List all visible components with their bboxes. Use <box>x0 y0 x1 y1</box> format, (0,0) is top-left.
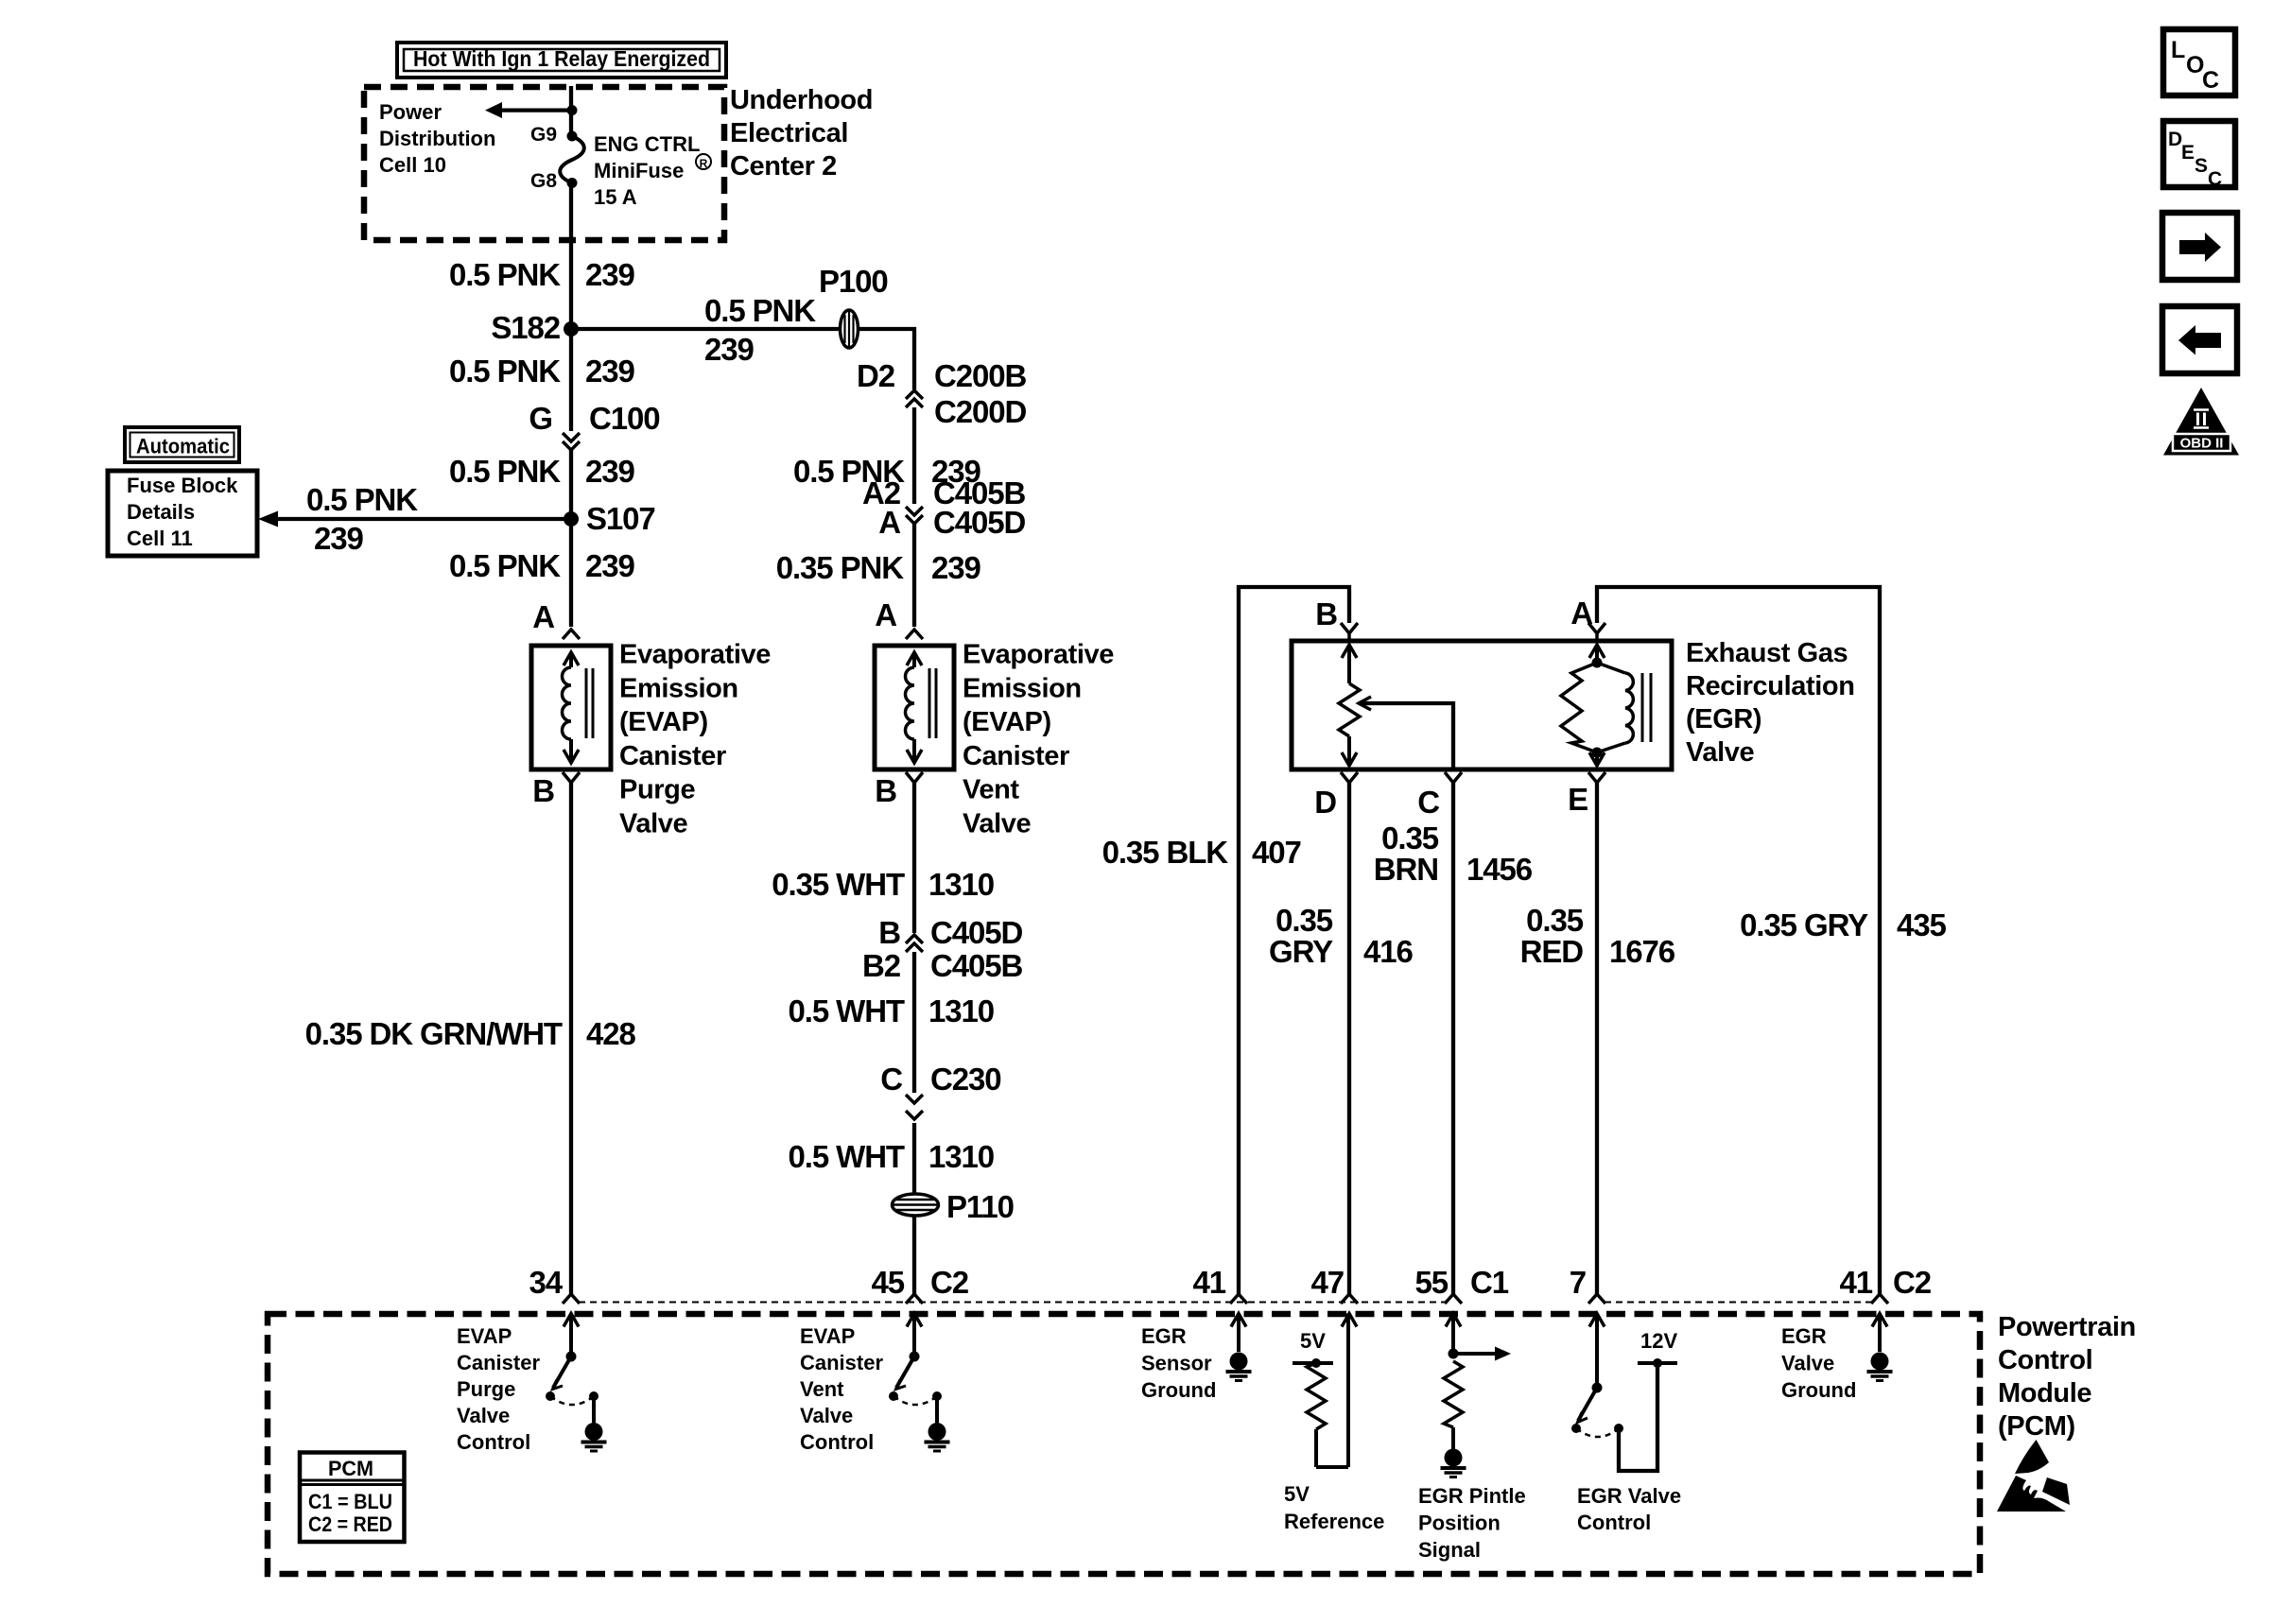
svg-text:47: 47 <box>1310 1265 1344 1300</box>
svg-text:PCM: PCM <box>328 1457 373 1480</box>
EGR valve ground pin 41 right <box>1878 1314 1882 1353</box>
terminal G9 <box>567 131 578 142</box>
driver switch EGR valve control <box>1571 1314 1677 1472</box>
svg-text:G9: G9 <box>530 124 557 146</box>
terminal pin E EGR <box>1588 772 1605 783</box>
svg-text:E: E <box>2181 142 2195 164</box>
pass-through grommet P110 <box>893 1194 939 1216</box>
svg-text:D: D <box>1314 785 1336 820</box>
svg-text:0.35: 0.35 <box>1275 903 1333 938</box>
registered trademark symbol <box>696 154 711 169</box>
wire EGR E to PCM 7, 0.35 RED 1676 <box>1595 783 1599 1294</box>
svg-text:L: L <box>2171 37 2185 63</box>
svg-text:5V: 5V <box>1300 1329 1326 1353</box>
svg-text:BRN: BRN <box>1374 852 1438 887</box>
svg-text:0.35 BLK: 0.35 BLK <box>1102 835 1229 870</box>
junction at power distribution tap <box>567 105 578 115</box>
fuse ENG CTRL MiniFuse 15 A <box>560 136 584 183</box>
svg-text:1676: 1676 <box>1609 934 1675 969</box>
OBD II icon <box>2163 388 2239 456</box>
terminal PCM pin 7 <box>1588 1294 1605 1304</box>
svg-text:B: B <box>878 915 900 950</box>
terminal PCM pin 41 <box>1230 1294 1247 1304</box>
svg-text:C405B: C405B <box>930 948 1022 983</box>
svg-text:416: 416 <box>1363 934 1414 969</box>
svg-text:7: 7 <box>1570 1265 1586 1300</box>
svg-text:C2: C2 <box>930 1265 969 1300</box>
Underhood Electrical Center 2 dashed box <box>364 87 724 240</box>
svg-text:C200D: C200D <box>934 394 1026 429</box>
svg-text:0.5 PNK: 0.5 PNK <box>449 354 561 389</box>
connector C230 chevrons <box>906 1095 923 1103</box>
svg-text:C2: C2 <box>1893 1265 1932 1300</box>
svg-text:0.35 WHT: 0.35 WHT <box>772 867 905 902</box>
svg-text:239: 239 <box>585 354 635 389</box>
svg-text:0.5 WHT: 0.5 WHT <box>789 993 905 1028</box>
svg-text:C1: C1 <box>1470 1265 1509 1300</box>
svg-text:45: 45 <box>871 1265 904 1300</box>
svg-text:239: 239 <box>585 257 635 292</box>
svg-text:0.5 WHT: 0.5 WHT <box>789 1139 905 1174</box>
svg-text:G8: G8 <box>530 170 557 192</box>
svg-text:239: 239 <box>585 548 635 583</box>
svg-text:C2 = RED: C2 = RED <box>308 1512 392 1536</box>
svg-text:1310: 1310 <box>928 1139 994 1174</box>
forward arrow icon <box>2162 213 2237 280</box>
terminal PCM pin 55 <box>1445 1294 1462 1304</box>
svg-text:S107: S107 <box>586 501 655 536</box>
EGR valve box <box>1292 641 1672 769</box>
svg-text:GRY: GRY <box>1269 934 1333 969</box>
terminal pin C EGR <box>1445 772 1462 783</box>
connector C100 chevrons <box>563 433 580 441</box>
svg-text:C: C <box>2202 67 2219 94</box>
svg-text:41: 41 <box>1839 1265 1872 1300</box>
svg-text:0.35: 0.35 <box>1526 903 1584 938</box>
svg-text:407: 407 <box>1252 835 1301 870</box>
ESD sensitive symbol <box>1997 1440 2070 1512</box>
svg-text:1310: 1310 <box>928 993 994 1028</box>
svg-text:S: S <box>2195 155 2208 177</box>
svg-text:A: A <box>875 597 896 632</box>
svg-text:P110: P110 <box>946 1189 1014 1224</box>
DESC icon <box>2163 121 2235 190</box>
terminal pin D EGR <box>1341 772 1358 783</box>
pass-through grommet P100 <box>841 310 859 348</box>
svg-text:0.35 PNK: 0.35 PNK <box>776 550 905 585</box>
EGR pintle position signal input <box>1444 1314 1511 1450</box>
terminal G8 <box>567 178 578 188</box>
svg-text:C: C <box>880 1062 902 1097</box>
PCM connector thin dashed line <box>579 1302 1448 1304</box>
svg-text:G: G <box>529 401 552 436</box>
wire vent valve to C405D, 0.35 WHT 1310 <box>912 783 916 933</box>
arrowhead to Power Distribution <box>485 102 502 118</box>
svg-text:12V: 12V <box>1640 1329 1677 1353</box>
svg-text:Automatic: Automatic <box>136 435 230 458</box>
svg-text:239: 239 <box>314 521 364 556</box>
svg-text:C1 = BLU: C1 = BLU <box>308 1490 392 1513</box>
svg-text:C405D: C405D <box>930 915 1022 950</box>
svg-text:55: 55 <box>1414 1265 1448 1300</box>
svg-text:239: 239 <box>931 550 981 585</box>
svg-text:C: C <box>2208 168 2222 190</box>
svg-text:1456: 1456 <box>1466 852 1533 887</box>
PCM input arrow pin 41R <box>1872 1314 1887 1327</box>
header box: Hot With Ign 1 Relay Energized <box>397 43 726 78</box>
connector C405D/C405B chevrons lower <box>906 935 923 943</box>
wire C230 to P110, 0.5 WHT 1310 <box>912 1123 916 1194</box>
svg-text:435: 435 <box>1897 907 1947 942</box>
svg-text:0.5 PNK: 0.5 PNK <box>449 257 561 292</box>
wire EGR D to PCM 47, 0.35 GRY 416 <box>1347 783 1351 1294</box>
wire purge valve to PCM pin 34, 0.35 DK GRN/WHT 428 <box>569 783 573 1294</box>
EGR harness top left wire <box>1239 587 1349 1294</box>
EGR solenoid winding <box>1561 645 1651 766</box>
terminal PCM pin 41 right <box>1871 1294 1888 1304</box>
svg-text:P100: P100 <box>819 264 888 299</box>
svg-text:C405D: C405D <box>933 505 1025 540</box>
svg-text:C230: C230 <box>930 1062 1001 1097</box>
svg-text:C: C <box>1417 785 1439 820</box>
PCM input arrow pin 55 <box>1446 1314 1461 1327</box>
PCM legend box <box>300 1453 405 1543</box>
back arrow icon <box>2162 306 2237 373</box>
PCM input arrow pin 34 <box>564 1314 579 1327</box>
svg-text:41: 41 <box>1192 1265 1225 1300</box>
svg-text:B: B <box>1315 596 1337 631</box>
wire C200D to C405B, 0.5 PNK 239 <box>912 407 916 504</box>
wire from ignition feed down to G9 <box>569 86 573 136</box>
Powertrain Control Module dashed box <box>268 1314 1980 1574</box>
EGR harness top right wire <box>1597 587 1880 1294</box>
connector C405B/C405D chevrons <box>906 507 923 515</box>
solenoid EVAP Canister Vent Valve <box>875 646 954 769</box>
terminal pin A vent valve <box>906 630 923 639</box>
Automatic tag box <box>125 427 239 462</box>
terminal PCM pin 34 <box>563 1294 580 1304</box>
wire P110 to PCM pin 45 <box>912 1216 916 1294</box>
wire S182 down, 0.5 PNK 239 <box>569 329 573 431</box>
PCM input arrow pin 47 <box>1342 1314 1357 1327</box>
wire C405B to C230, 0.5 WHT 1310 <box>912 952 916 1093</box>
svg-text:34: 34 <box>529 1265 563 1300</box>
svg-text:428: 428 <box>586 1016 636 1051</box>
svg-text:1310: 1310 <box>928 867 994 902</box>
svg-text:0.35 GRY: 0.35 GRY <box>1740 907 1868 942</box>
wire S107 to EVAP purge valve pin A, 0.5 PNK 239 <box>569 519 573 627</box>
arrowhead to Fuse Block <box>258 511 278 527</box>
wire S107 to Fuse Block, 0.5 PNK 239 <box>276 517 571 521</box>
svg-text:D: D <box>2168 129 2182 150</box>
svg-text:B: B <box>532 773 554 808</box>
EGR sensor ground pin 41 <box>1237 1314 1241 1353</box>
wire S182 to P100, 0.5 PNK 239 <box>571 327 841 331</box>
5V reference pull-up <box>1293 1314 1348 1468</box>
terminal PCM pin 47 <box>1341 1294 1358 1304</box>
wire C100 to S107, 0.5 PNK 239 <box>569 450 573 519</box>
svg-text:0.35 DK GRN/WHT: 0.35 DK GRN/WHT <box>305 1016 563 1051</box>
svg-text:0.5 PNK: 0.5 PNK <box>449 454 561 489</box>
PCM input arrow pin 41 <box>1231 1314 1246 1327</box>
svg-text:D2: D2 <box>857 358 895 393</box>
wire C405D to EVAP vent valve pin A, 0.35 PNK 239 <box>912 524 916 627</box>
svg-text:0.5 PNK: 0.5 PNK <box>449 548 561 583</box>
driver switch EVAP canister purge valve control <box>546 1314 599 1424</box>
svg-text:A: A <box>532 599 554 634</box>
svg-text:OBD II: OBD II <box>2180 436 2224 452</box>
wire P100 to C200 connector <box>858 329 914 389</box>
PCM input arrow pin 45 <box>907 1314 922 1327</box>
svg-text:Hot With Ign 1 Relay Energized: Hot With Ign 1 Relay Energized <box>413 46 710 71</box>
terminal pin B EGR <box>1341 623 1358 633</box>
svg-text:239: 239 <box>585 454 635 489</box>
potentiometer wiper arrow <box>1359 697 1453 771</box>
svg-text:C200B: C200B <box>934 358 1026 393</box>
terminal pin A EGR <box>1588 623 1605 633</box>
svg-text:S182: S182 <box>491 310 560 345</box>
wire to Power Distribution arrow <box>501 108 572 112</box>
driver switch EVAP canister vent valve control <box>889 1314 942 1424</box>
svg-text:A: A <box>878 505 900 540</box>
solenoid EVAP Canister Purge Valve <box>531 646 611 769</box>
svg-text:239: 239 <box>704 332 755 367</box>
svg-text:C100: C100 <box>589 401 660 436</box>
svg-text:0.5 PNK: 0.5 PNK <box>704 293 816 328</box>
terminal PCM pin 45 <box>906 1294 923 1304</box>
svg-text:RED: RED <box>1520 934 1584 969</box>
connector C200B/C200D chevrons <box>906 390 923 399</box>
svg-text:B: B <box>875 773 896 808</box>
svg-text:B2: B2 <box>862 948 901 983</box>
wire G8 to S182, 0.5 PNK 239 <box>569 183 573 330</box>
potentiometer inside EGR valve <box>1339 645 1360 766</box>
terminal pin A purge valve <box>563 630 580 639</box>
wire EGR C to PCM 55, 0.35 BRN 1456 <box>1451 783 1455 1294</box>
LOC icon <box>2163 29 2235 95</box>
svg-text:0.5 PNK: 0.5 PNK <box>306 482 418 517</box>
svg-text:R: R <box>700 157 708 170</box>
Fuse Block Details Cell 11 box <box>108 471 257 556</box>
PCM input arrow pin 7 <box>1589 1314 1605 1327</box>
terminal pin B vent valve <box>906 772 923 783</box>
svg-text:E: E <box>1568 782 1588 817</box>
terminal pin B purge valve <box>563 772 580 783</box>
svg-text:0.35: 0.35 <box>1381 821 1439 855</box>
